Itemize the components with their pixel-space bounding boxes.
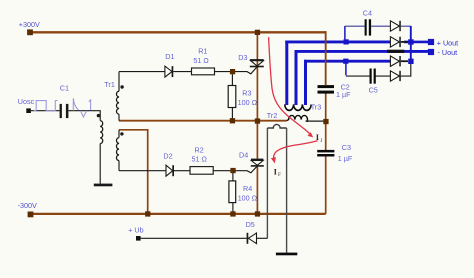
diode D4 top bar [251, 159, 263, 161]
svg-text:+ Ub: + Ub [128, 225, 143, 234]
waveform square wave before C1 [34, 101, 58, 111]
svg-text:51 Ω: 51 Ω [193, 56, 209, 65]
svg-text:1 µF: 1 µF [336, 90, 351, 99]
resistor R3 [228, 86, 236, 108]
node +Ub terminal [136, 236, 141, 241]
wire +300V top rail [30, 31, 326, 33]
wire +Ub to D5 [141, 237, 247, 239]
wire Tr2 right to capacitor midpoint [306, 120, 325, 122]
capacitor C4 [365, 19, 367, 35]
node A junction R1 R3 [230, 69, 235, 74]
svg-text:100 Ω: 100 Ω [238, 98, 258, 107]
resistor R2 [190, 167, 213, 175]
node R4 rail junction [230, 211, 235, 216]
diode DD row C5 [390, 71, 399, 81]
node Uosc terminal [26, 108, 31, 113]
transformer Tr1 lower winding stub bottom [118, 161, 120, 171]
wire bus row 1 right [404, 41, 428, 44]
node B junction R2 R4 [230, 168, 235, 173]
wire bus vertical 1 [285, 41, 288, 106]
wire Tr1 primary to ground [99, 144, 101, 184]
svg-text:J: J [320, 138, 322, 144]
node D3 line mid rail junction [255, 118, 260, 123]
svg-text:C3: C3 [342, 143, 351, 152]
resistor R4 [229, 181, 236, 203]
resistor R3 stub bottom [231, 108, 233, 121]
wire C1 to Tr1 primary [68, 111, 100, 121]
node +300V terminal [27, 29, 33, 35]
capacitor C2 [318, 85, 335, 88]
transformer Tr3 winding [285, 104, 311, 110]
svg-text:Tr1: Tr1 [104, 80, 115, 89]
transformer Tr1 upper winding stub top [118, 72, 120, 92]
wire D3 D4 vertical lower [256, 167, 258, 214]
node Tr2 return rail junction [145, 211, 150, 216]
wire staple left leg [266, 128, 268, 238]
node +Uout terminal [428, 39, 434, 45]
svg-text:C5: C5 [369, 85, 378, 94]
wire R2 to node B [213, 166, 257, 173]
capacitor C5 [370, 69, 372, 84]
wire bus vertical 3 [304, 60, 307, 105]
capacitor C1 [60, 104, 62, 118]
transformer Tr1 lower winding coil [116, 138, 119, 161]
wire Tr1 lower to D2 [119, 170, 166, 172]
diode D5 [247, 233, 249, 244]
svg-text:C4: C4 [363, 9, 372, 18]
ground right [276, 253, 297, 256]
wire staple top with hop [267, 124, 286, 128]
transformer Tr1 lower winding stub top [118, 130, 120, 138]
node rectifier junction row1 [408, 39, 413, 44]
svg-text:51 Ω: 51 Ω [192, 154, 208, 163]
svg-text:100 Ω: 100 Ω [238, 194, 258, 203]
wire R1 to node A [215, 67, 258, 74]
svg-text:C1: C1 [60, 83, 69, 92]
annotation current arrow IJ [269, 37, 310, 133]
svg-text:+300V: +300V [19, 20, 40, 29]
svg-text:1 µF: 1 µF [338, 154, 353, 163]
transformer Tr1 lower winding polarity dot [120, 132, 123, 135]
node R3 mid rail junction [230, 118, 235, 123]
transformer Tr1 primary coil [100, 121, 103, 144]
transformer Tr1 upper winding polarity dot [120, 85, 123, 88]
diode D3 top bar [250, 59, 264, 61]
svg-text:Uosc: Uosc [18, 97, 35, 106]
resistor R1 [192, 68, 215, 75]
node rail junction above D3 [255, 30, 260, 35]
wire C2 to C3 [325, 93, 327, 150]
wire diode DC to node [401, 60, 408, 62]
wire bus row 1 [285, 40, 390, 43]
diode D3 triangle [251, 61, 264, 66]
wire C4 row [345, 25, 411, 27]
wire C5 row [346, 75, 391, 77]
svg-text:R2: R2 [195, 146, 204, 155]
node rectifier junction row3 [408, 59, 413, 64]
wire bus row 3 [304, 60, 390, 63]
node D4 line rail junction [255, 211, 260, 216]
wire D1 to R1 [173, 71, 191, 73]
transformer Tr1 upper winding coil [116, 91, 119, 114]
svg-text:Tr3: Tr3 [311, 103, 322, 112]
diode D4 bottom bar [251, 165, 264, 167]
node -300V terminal [28, 212, 34, 218]
node bus C5 junction [343, 59, 348, 64]
wire Tr1 top to D1 [119, 71, 165, 73]
wire Uosc to C1 [31, 110, 60, 112]
wire Tr1 lower winding loop to -300V rail [119, 130, 148, 214]
wire D5 to staple [257, 237, 268, 239]
wire brown vertical overlay over bus rows [325, 31, 327, 85]
svg-text:Tr2: Tr2 [267, 111, 278, 120]
resistor R3 stub top [231, 74, 233, 85]
diode DB row1 [390, 37, 399, 47]
wire mid rail Tr1 to Tr2 [119, 120, 287, 122]
svg-text:F: F [278, 172, 281, 178]
diode D1 [165, 66, 172, 77]
wire bus row 2 [295, 50, 432, 53]
wire diode DB to node [401, 41, 408, 43]
wire -300V bottom rail [31, 213, 326, 215]
wire staple right leg to ground [286, 128, 288, 253]
svg-text:D3: D3 [238, 53, 247, 62]
svg-text:- Uout: - Uout [438, 48, 458, 57]
svg-text:R1: R1 [198, 46, 207, 55]
ground primary [94, 184, 113, 187]
svg-text:D4: D4 [239, 150, 248, 159]
transformer Tr1 primary polarity dot [97, 114, 100, 117]
node bus C4 junction [344, 39, 349, 44]
wire black segment on row 2 [387, 50, 404, 53]
diode DA top [390, 21, 399, 31]
node -Uout terminal [428, 49, 434, 55]
wire right vertical rectifier [410, 26, 412, 62]
svg-text:+ Uout: + Uout [437, 39, 458, 48]
svg-text:R3: R3 [242, 89, 251, 98]
annotation current arrow IF [274, 141, 318, 161]
waveform spikes after C1 [73, 98, 90, 117]
wire bus vertical 2 [295, 50, 298, 105]
svg-text:D2: D2 [163, 152, 172, 161]
svg-text:R4: R4 [243, 184, 252, 193]
wire right vertical lower black [401, 61, 411, 76]
diode DC row3 [390, 56, 399, 66]
diode D3 bottom bar [250, 66, 264, 68]
transformer Tr2 winding [287, 115, 308, 121]
wire C4 row left stub [344, 26, 346, 39]
wire D3 D4 vertical upper [256, 32, 258, 159]
wire C3 to -300V rail [325, 156, 327, 214]
wire C5 node stub [345, 62, 347, 75]
transformer Tr1 upper winding stub bottom [118, 114, 120, 121]
resistor R4 stub bottom [232, 203, 234, 214]
diode D4 triangle [251, 160, 263, 165]
wire D2 to R2 [174, 170, 190, 172]
resistor R4 stub top [232, 173, 234, 181]
svg-text:D1: D1 [165, 52, 174, 61]
node Tr2 capacitor midpoint junction [323, 119, 328, 124]
capacitor C3 [317, 150, 334, 153]
svg-text:-300V: -300V [18, 201, 37, 210]
diode D2 [166, 165, 173, 176]
wire right vertical from +300V rail to C2 [325, 31, 327, 85]
svg-text:D5: D5 [246, 220, 255, 229]
